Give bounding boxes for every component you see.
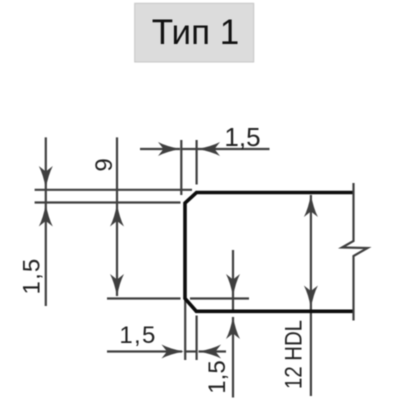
extension line A (top surface level, left) — [35, 189, 192, 191]
dimension left 1,5 : upper shaft — [45, 137, 47, 306]
dimension left 1,5 : up arrowhead — [39, 204, 53, 227]
dimension top 1,5 : right arrowhead — [198, 142, 221, 156]
dimension left 1,5 : down arrowhead — [39, 166, 53, 189]
dimension bottom 1,5 : right-pointing arrowhead — [162, 345, 185, 359]
extension line C (bottom chamfer top level) — [107, 297, 181, 299]
dimension bottom 1,5 : right shaft — [199, 350, 227, 352]
extension line F (vertical, bottom chamfer left x) — [184, 300, 186, 360]
dimension 12 HDL : up arrowhead — [304, 195, 318, 218]
svg-text:12 HDL: 12 HDL — [281, 320, 308, 389]
svg-text:1,5: 1,5 — [204, 360, 231, 393]
dimension top 1,5 : left arrowhead — [158, 142, 181, 156]
extension line D (vertical, top chamfer left x) — [180, 140, 182, 195]
svg-text:Тип 1: Тип 1 — [152, 13, 240, 52]
extension line B (top chamfer bottom level, left) — [35, 201, 181, 203]
dimension top 1,5 : right shaft — [198, 148, 270, 150]
dimension bottom 1,5 : left shaft — [107, 350, 182, 352]
svg-text:1,5: 1,5 — [119, 322, 156, 349]
dimension 12 HDL : shaft — [310, 195, 312, 396]
dimension 9 : down arrowhead — [110, 274, 124, 297]
extension line G (vertical, bottom chamfer right x) — [196, 316, 198, 361]
dimension 9 : upper shaft — [116, 137, 118, 296]
dimension 9 : up arrowhead — [110, 204, 124, 227]
profile outline (thick) — [185, 193, 353, 312]
title box — [135, 3, 254, 62]
extension line E (vertical, top chamfer right x) — [196, 140, 198, 185]
dimension bottom-middle 1,5 : upper shaft — [232, 250, 234, 310]
dimension bottom 1,5 : mid segment — [185, 350, 197, 352]
svg-text:1,5: 1,5 — [224, 122, 260, 152]
dimension bottom-middle 1,5 : down arrowhead — [226, 274, 240, 297]
right cut line with break symbol — [342, 183, 368, 321]
svg-text:9: 9 — [91, 158, 118, 171]
dimension 12 HDL : down arrowhead — [304, 286, 318, 309]
dimension bottom-middle 1,5 : up arrowhead — [226, 317, 240, 340]
extension line C (right part) — [190, 297, 249, 299]
dimension top 1,5 : mid segment — [181, 148, 197, 150]
svg-text:1,5: 1,5 — [19, 258, 46, 295]
dimension top 1,5 : left shaft — [140, 148, 180, 150]
dimension bottom 1,5 : left-pointing arrowhead — [199, 345, 222, 359]
dimension bottom-middle 1,5 : lower shaft — [232, 317, 234, 398]
